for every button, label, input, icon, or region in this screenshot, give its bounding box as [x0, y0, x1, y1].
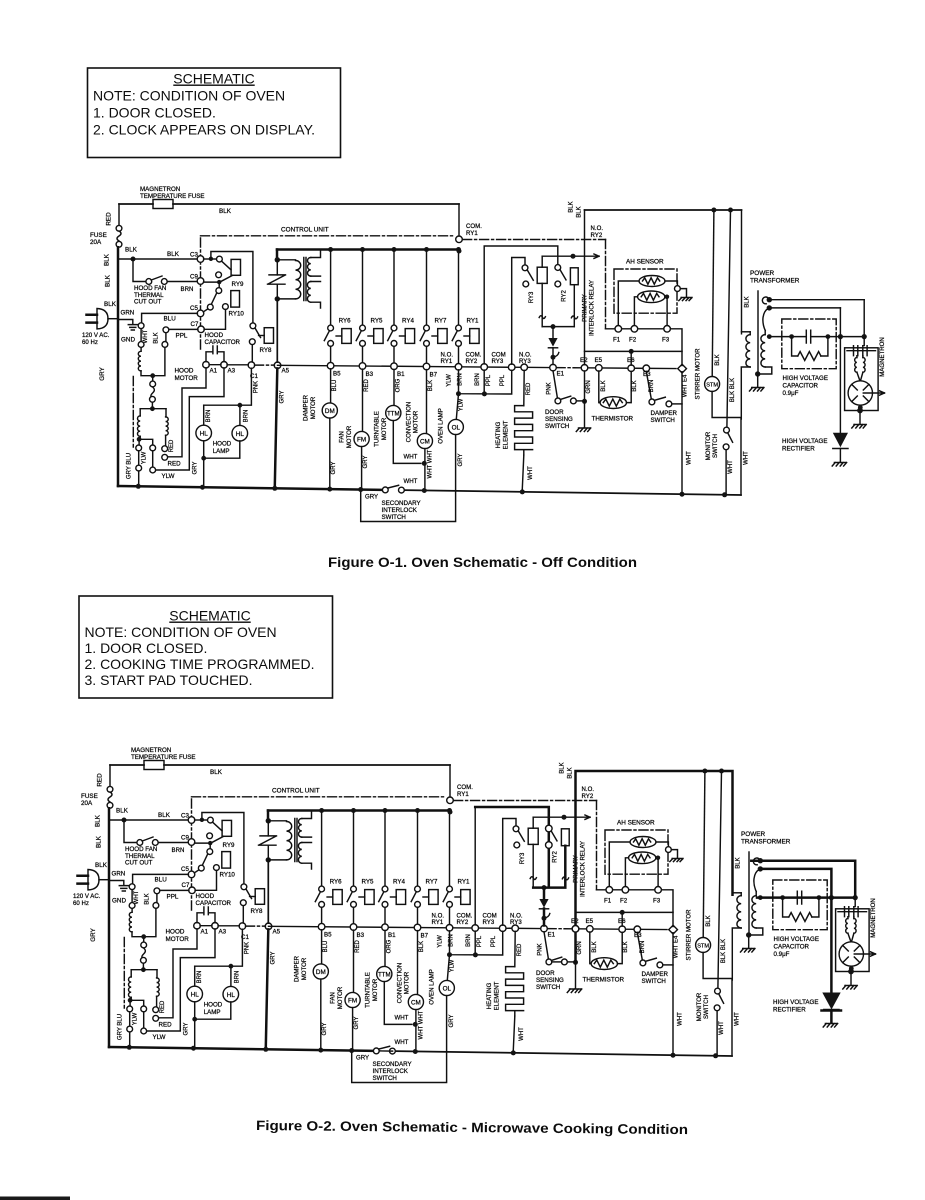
turntable motor TTM	[393, 369, 395, 405]
oven lamp OL	[448, 419, 463, 434]
schematic 2 interlock diode bold	[543, 888, 546, 926]
magnetron filament coils	[855, 358, 857, 373]
svg-text:BLK: BLK	[632, 380, 638, 391]
RY10 coil to C7 wire	[223, 304, 229, 310]
svg-text:HOOD: HOOD	[213, 441, 232, 448]
control transformer core	[304, 258, 306, 301]
svg-text:HIGH VOLTAGE: HIGH VOLTAGE	[783, 375, 829, 382]
svg-text:PPL: PPL	[176, 333, 188, 340]
bottom left scan artifact bar	[0, 1197, 70, 1200]
terminal E3	[643, 365, 650, 372]
svg-text:GRY: GRY	[280, 391, 286, 404]
terminal A1	[203, 361, 210, 368]
terminal C5	[197, 310, 204, 317]
AH sensor element 2	[638, 291, 665, 303]
schematic 2 HV rectifier bold	[822, 993, 840, 1010]
svg-text:RY2: RY2	[466, 358, 478, 365]
bleeder resistor	[792, 337, 828, 356]
svg-text:RED: RED	[106, 212, 113, 226]
relay RY6 contact and coil	[328, 247, 333, 252]
power transformer primary winding	[742, 331, 751, 333]
svg-text:RY3: RY3	[519, 358, 531, 365]
svg-text:SWITCH: SWITCH	[651, 417, 675, 424]
magnetron box	[845, 348, 879, 411]
svg-text:B1: B1	[397, 371, 405, 378]
svg-text:RED: RED	[364, 379, 370, 392]
feed wire C3 up over to RY8/C1 column	[211, 252, 253, 323]
wire E4 WHT down to bus	[681, 372, 683, 494]
terminal C7	[198, 326, 205, 333]
control transformer primary vertical	[276, 250, 279, 260]
relay RY9 coil	[231, 259, 240, 275]
svg-text:FM: FM	[357, 437, 366, 444]
svg-text:BRN: BRN	[243, 410, 249, 423]
svg-text:1. DOOR CLOSED.: 1. DOOR CLOSED.	[93, 105, 216, 121]
svg-text:B7: B7	[430, 371, 438, 378]
high voltage rectifier	[839, 337, 841, 433]
terminal C3	[197, 256, 204, 263]
hood motor	[138, 342, 144, 348]
terminal B1	[391, 363, 398, 370]
svg-text:F3: F3	[662, 337, 670, 344]
svg-text:C9: C9	[190, 274, 198, 281]
magnetron temperature fuse body	[119, 203, 153, 205]
svg-text:YLW: YLW	[162, 473, 175, 480]
terminal PPL	[163, 327, 169, 333]
svg-text:YLW: YLW	[459, 398, 465, 411]
relay RY7 contact and coil	[424, 247, 429, 252]
svg-text:GND: GND	[121, 337, 135, 344]
svg-text:TURNTABLE: TURNTABLE	[374, 411, 381, 447]
svg-text:DAMPER: DAMPER	[303, 394, 310, 421]
svg-text:BRN: BRN	[649, 380, 655, 393]
svg-text:COM.: COM.	[466, 223, 482, 230]
svg-text:WHT: WHT	[404, 454, 418, 461]
door sensing switch	[553, 371, 557, 398]
magnetron ground	[859, 405, 861, 407]
thermistor	[599, 371, 601, 403]
svg-text:MAGNETRON: MAGNETRON	[140, 186, 180, 193]
svg-text:INTERLOCK RELAY: INTERLOCK RELAY	[589, 280, 596, 336]
schematic 2 E2 terminal over bold	[572, 926, 579, 933]
svg-text:HL: HL	[236, 431, 245, 438]
svg-text:PPL: PPL	[500, 374, 506, 386]
svg-text:BLU: BLU	[164, 316, 177, 323]
svg-text:0.9μF: 0.9μF	[783, 390, 799, 397]
svg-text:PNK: PNK	[254, 381, 260, 393]
svg-text:BLK: BLK	[167, 251, 180, 258]
svg-text:OVEN LAMP: OVEN LAMP	[437, 408, 444, 444]
svg-text:SWITCH: SWITCH	[712, 434, 719, 458]
schematic 2 energized bold wiring	[475, 807, 549, 826]
relay RY1 contact and coil	[456, 247, 461, 252]
svg-text:PPL: PPL	[486, 374, 492, 386]
svg-text:MOTOR: MOTOR	[310, 396, 317, 419]
svg-text:ORG: ORG	[395, 378, 401, 392]
svg-text:F1: F1	[613, 337, 621, 344]
svg-text:HL: HL	[200, 431, 209, 438]
svg-text:A3: A3	[228, 367, 236, 374]
svg-text:BLK: BLK	[744, 296, 750, 307]
svg-text:RED: RED	[526, 382, 532, 395]
plug 120V AC	[87, 315, 98, 323]
wire BLK to C3	[118, 258, 197, 260]
svg-text:MONITOR: MONITOR	[705, 431, 712, 460]
svg-text:SCHEMATIC: SCHEMATIC	[173, 71, 254, 87]
svg-text:WHT WHT: WHT WHT	[427, 449, 433, 478]
HV wire	[769, 336, 864, 338]
svg-text:RY6: RY6	[339, 318, 351, 325]
transformer taps to HV circuit	[762, 297, 769, 330]
terminal WHT	[138, 323, 144, 329]
relay RY8 contact	[250, 323, 256, 329]
svg-text:CONTROL UNIT: CONTROL UNIT	[281, 227, 329, 234]
hood capacitor	[206, 352, 224, 362]
svg-text:BLK: BLK	[105, 274, 112, 287]
svg-text:WHT: WHT	[143, 329, 149, 343]
svg-text:GRY: GRY	[458, 454, 464, 467]
svg-text:WHT: WHT	[528, 466, 534, 480]
svg-text:RY5: RY5	[371, 318, 383, 325]
bottom bus wire	[118, 486, 382, 490]
wire C3 to RY9 contact	[204, 258, 217, 260]
svg-text:3. START PAD TOUCHED.: 3. START PAD TOUCHED.	[85, 672, 253, 688]
svg-text:RY1: RY1	[466, 230, 478, 237]
svg-text:GRY: GRY	[99, 366, 106, 380]
svg-text:BLK: BLK	[154, 332, 160, 343]
svg-text:DAMPER: DAMPER	[651, 410, 678, 417]
magnetron antenna arrow	[863, 391, 884, 395]
RY2 coil return	[573, 285, 575, 327]
wire A5 GRY down to bus	[275, 368, 278, 486]
terminal N.O. RY3	[521, 364, 528, 371]
terminal row wire	[209, 364, 248, 366]
svg-text:CONVECTION: CONVECTION	[405, 402, 412, 443]
capacitor plates	[806, 330, 810, 343]
svg-text:BRN: BRN	[475, 373, 481, 386]
schematic 2 RY2 contact circles over bold	[546, 825, 553, 832]
magnetron filament feedthrough	[863, 337, 865, 346]
upper rail E2 to E4	[585, 350, 683, 352]
damper motor DM	[330, 369, 332, 403]
terminal A5	[274, 362, 281, 369]
F terminal row	[606, 329, 683, 366]
schematic 2 (microwave cooking condition) reuse of schematic 1	[73, 747, 877, 1083]
svg-text:TTM: TTM	[387, 411, 400, 418]
svg-text:STIRRER MOTOR: STIRRER MOTOR	[694, 348, 701, 400]
terminal N.O. RY1	[455, 364, 462, 371]
terminal COM RY2	[481, 364, 488, 371]
svg-text:BLK: BLK	[715, 354, 721, 365]
svg-text:HIGH VOLTAGE: HIGH VOLTAGE	[782, 438, 828, 445]
RY3 coil return	[541, 283, 543, 326]
convection motor CM	[426, 370, 428, 434]
svg-text:BLU: BLU	[332, 380, 338, 392]
svg-text:B3: B3	[366, 371, 374, 378]
svg-text:HOOD: HOOD	[175, 368, 194, 375]
svg-text:POWER: POWER	[750, 270, 775, 277]
svg-text:RY10: RY10	[229, 311, 245, 318]
svg-text:1. DOOR CLOSED.: 1. DOOR CLOSED.	[85, 640, 208, 656]
svg-text:2. CLOCK APPEARS ON DISPLAY.: 2. CLOCK APPEARS ON DISPLAY.	[93, 122, 315, 138]
control transformer core Z	[268, 275, 286, 284]
svg-text:A5: A5	[282, 368, 290, 375]
svg-text:CM: CM	[420, 439, 430, 446]
svg-text:RY2: RY2	[591, 232, 603, 239]
svg-text:BLK: BLK	[428, 380, 434, 391]
wire C1 PNK to hood lamps	[204, 368, 252, 405]
svg-text:60 Hz: 60 Hz	[82, 339, 98, 346]
control unit top bus	[277, 248, 459, 251]
terminal E1	[550, 364, 557, 371]
svg-text:RY3: RY3	[492, 358, 504, 365]
terminal A3	[221, 362, 228, 369]
svg-text:RY4: RY4	[402, 318, 414, 325]
relay RY10 coil	[231, 291, 240, 308]
svg-text:CAPACITOR: CAPACITOR	[783, 383, 819, 390]
control unit border dash-dot	[201, 235, 456, 237]
node junction to hood fan cutout	[131, 257, 136, 262]
power transformer core	[757, 291, 759, 373]
terminal E2	[581, 365, 588, 372]
svg-text:THERMISTOR: THERMISTOR	[592, 415, 634, 422]
svg-text:C5: C5	[190, 305, 198, 312]
svg-text:MOTOR: MOTOR	[381, 417, 388, 440]
terminal B7	[423, 363, 430, 370]
wire PPL from C7	[169, 328, 198, 330]
svg-text:BLK: BLK	[569, 201, 575, 212]
svg-text:TRANSFORMER: TRANSFORMER	[750, 278, 800, 285]
RY9 coil return to C9 node	[204, 275, 233, 282]
svg-text:RECTIFIER: RECTIFIER	[782, 446, 815, 453]
svg-text:GRY BLU: GRY BLU	[127, 453, 133, 479]
svg-text:AH SENSOR: AH SENSOR	[626, 259, 664, 266]
COM RY3 feed to RY3 contact	[512, 258, 525, 365]
wire top BLK to control unit	[173, 203, 459, 205]
wire BLK top rail right	[585, 209, 742, 211]
schematic 1 (off condition)	[82, 186, 886, 522]
svg-text:HOOD: HOOD	[205, 332, 224, 339]
svg-text:PNK: PNK	[546, 382, 552, 394]
svg-text:RY1: RY1	[441, 358, 453, 365]
hood fan thermal cutout switch	[133, 259, 146, 282]
control transformer secondary windings	[308, 258, 311, 277]
svg-text:CAPACITOR: CAPACITOR	[205, 339, 241, 346]
relay RY4 contact and coil	[392, 247, 397, 252]
svg-text:BLK: BLK	[219, 208, 232, 215]
svg-text:YLW: YLW	[446, 374, 452, 387]
svg-text:YLW: YLW	[141, 451, 147, 464]
long BLK vertical wire N.O.RY2 to ground	[584, 210, 586, 399]
svg-text:WHT E4: WHT E4	[683, 374, 689, 397]
main left vertical wire GRY	[117, 247, 120, 486]
svg-text:RY8: RY8	[260, 347, 272, 354]
terminal COM RY3	[508, 364, 515, 371]
schematic 2 door sensing switch closed	[552, 961, 562, 963]
terminal C9	[197, 278, 204, 285]
svg-text:NOTE: CONDITION OF OVEN: NOTE: CONDITION OF OVEN	[93, 88, 285, 104]
interlock diode	[552, 327, 554, 338]
fuse 20A	[118, 204, 120, 226]
svg-text:MOTOR: MOTOR	[175, 375, 199, 382]
svg-text:NOTE: CONDITION OF OVEN: NOTE: CONDITION OF OVEN	[85, 624, 277, 640]
svg-text:SWITCH: SWITCH	[545, 423, 569, 430]
power transformer secondary winding	[761, 335, 765, 367]
relay RY9 contact	[217, 256, 223, 262]
hood lamp HL1	[203, 405, 205, 425]
svg-text:120 V AC.: 120 V AC.	[82, 332, 110, 339]
svg-text:RY7: RY7	[435, 318, 447, 325]
high voltage capacitor box	[782, 319, 836, 369]
AH sensor element 1	[639, 276, 665, 287]
svg-text:20A: 20A	[90, 239, 102, 246]
svg-text:BLK BLK: BLK BLK	[730, 378, 736, 402]
svg-text:FUSE: FUSE	[90, 232, 107, 239]
monitor switch	[727, 210, 731, 427]
svg-text:E1: E1	[557, 370, 565, 377]
svg-text:F2: F2	[629, 337, 637, 344]
hood motor boundary dash-dot	[132, 377, 134, 448]
svg-text:ELEMENT: ELEMENT	[503, 420, 510, 449]
fan motor FM	[362, 369, 364, 431]
relay RY3 contact	[522, 265, 528, 271]
svg-text:SWITCH: SWITCH	[382, 514, 406, 521]
svg-text:CUT OUT: CUT OUT	[134, 299, 162, 306]
svg-text:MOTOR: MOTOR	[346, 425, 353, 448]
svg-text:BRN: BRN	[181, 286, 194, 293]
terminal E6	[628, 365, 635, 372]
COM RY1 node	[458, 204, 460, 236]
svg-text:MOTOR: MOTOR	[413, 410, 420, 433]
svg-text:RY9: RY9	[232, 281, 244, 288]
svg-text:SECONDARY: SECONDARY	[382, 500, 421, 507]
hood lamp HL2	[239, 405, 241, 425]
svg-text:WHT: WHT	[744, 451, 750, 465]
svg-text:SENSING: SENSING	[545, 416, 573, 423]
wire A3 staircase to hood motor YLW	[156, 368, 224, 470]
hood lamp return wires	[204, 441, 240, 458]
terminal E5	[596, 365, 603, 372]
svg-text:N.O.: N.O.	[591, 225, 604, 232]
svg-text:2. COOKING TIME PROGRAMMED.: 2. COOKING TIME PROGRAMMED.	[85, 656, 315, 672]
svg-text:C7: C7	[191, 321, 199, 328]
svg-text:BLK: BLK	[601, 380, 607, 391]
svg-text:WHT: WHT	[728, 460, 734, 474]
magnetron tube	[848, 381, 872, 405]
wire YLW to oven lamp	[456, 394, 458, 420]
svg-text:GRN: GRN	[586, 380, 592, 393]
svg-text:LAMP: LAMP	[213, 448, 230, 455]
svg-text:DOOR: DOOR	[545, 409, 564, 416]
svg-text:GRN: GRN	[121, 310, 135, 317]
svg-text:RED: RED	[168, 461, 182, 468]
svg-text:MAGNETRON: MAGNETRON	[879, 337, 886, 377]
interlock bottom rail	[542, 326, 574, 328]
wire A1 staircase to hood motor RED	[168, 368, 206, 457]
relay RY5 contact and coil	[360, 247, 365, 252]
svg-text:BLK: BLK	[577, 206, 583, 217]
svg-text:BLK: BLK	[104, 253, 111, 266]
relay RY3 coil	[537, 267, 547, 283]
dash-dot to N.O. RY2	[463, 239, 606, 241]
terminal B3	[359, 363, 366, 370]
svg-text:OL: OL	[452, 425, 461, 432]
svg-text:RED: RED	[169, 439, 175, 452]
svg-text:C3: C3	[190, 252, 198, 259]
N.O. RY2 arm wire with arrow	[542, 255, 599, 257]
heating element	[523, 370, 525, 405]
svg-text:BRN: BRN	[206, 410, 212, 423]
COM RY2 feed to RY2 contact	[484, 246, 558, 364]
power transformer primary feed	[741, 210, 743, 334]
terminal row bus	[278, 365, 459, 367]
AH sensor wiring	[618, 281, 639, 326]
svg-text:HEATING: HEATING	[495, 421, 502, 448]
relay output cross wiring	[459, 370, 512, 394]
svg-text:E5: E5	[595, 357, 603, 364]
svg-text:WHT: WHT	[404, 478, 418, 485]
svg-text:BLK: BLK	[125, 247, 138, 254]
svg-text:INTERLOCK: INTERLOCK	[382, 507, 418, 514]
terminal E4 diamond	[678, 364, 687, 373]
relay RY8 coil	[264, 328, 273, 344]
svg-text:DM: DM	[325, 408, 335, 415]
svg-text:A1: A1	[210, 367, 218, 374]
secondary interlock switch	[382, 487, 388, 493]
relay RY2 contact	[555, 265, 561, 271]
svg-text:Figure O-1. Oven Schematic - O: Figure O-1. Oven Schematic - Off Conditi…	[328, 555, 637, 570]
note box 1 border	[88, 68, 341, 158]
svg-text:B5: B5	[333, 371, 341, 378]
svg-text:GRY: GRY	[365, 494, 378, 501]
relay RY10 contact	[218, 282, 220, 288]
control transformer primary winding	[277, 259, 295, 261]
svg-text:STM: STM	[706, 383, 718, 389]
relay RY2 coil	[570, 268, 578, 285]
wire A5 up join	[276, 299, 278, 362]
svg-text:BLK: BLK	[104, 301, 117, 308]
svg-text:SCHEMATIC: SCHEMATIC	[169, 608, 250, 624]
terminal B5	[327, 362, 334, 369]
AH sensor box	[614, 269, 677, 313]
terminal C1	[248, 362, 255, 369]
schematic 2 secondary interlock closed	[379, 1050, 392, 1052]
svg-text:GRY: GRY	[331, 462, 337, 475]
note box 2 border	[79, 596, 333, 698]
svg-text:GRY: GRY	[363, 456, 369, 469]
svg-text:GRY: GRY	[193, 462, 199, 475]
wire BLU from C5	[142, 313, 198, 322]
svg-text:RY2: RY2	[562, 290, 568, 302]
svg-text:RY3: RY3	[529, 291, 535, 303]
svg-text:RY1: RY1	[467, 318, 479, 325]
svg-text:FAN: FAN	[339, 431, 346, 443]
stirrer motor STM	[712, 210, 714, 377]
svg-text:WHT: WHT	[686, 451, 692, 465]
damper switch	[646, 371, 651, 399]
